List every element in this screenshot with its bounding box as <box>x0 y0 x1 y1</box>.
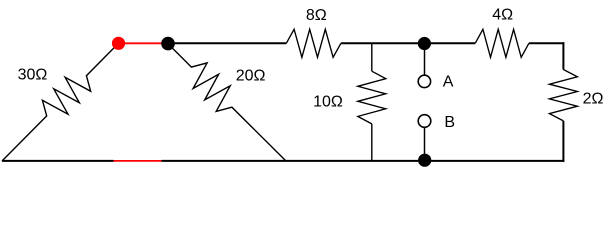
wire bottom left <box>2 160 114 162</box>
wire stub to terminal A <box>424 44 426 76</box>
wire right vertical lower <box>562 121 564 162</box>
terminal B circle <box>418 115 431 128</box>
node junction (top, 20ohm branch) <box>161 37 175 51</box>
wire bottom red segment <box>114 160 162 162</box>
wire right vertical upper <box>562 42 564 69</box>
resistor R1 30ohm (left diagonal branch) <box>2 43 119 161</box>
svg-text:A: A <box>443 74 454 91</box>
wire top horizontal <box>168 42 286 44</box>
svg-text:B: B <box>444 114 455 131</box>
node junction (bottom, terminal branch) <box>418 154 431 167</box>
node red (top left junction) <box>112 37 125 50</box>
resistor R2 20ohm (diagonal branch) <box>168 44 286 161</box>
wire bottom right <box>162 160 565 162</box>
wire 10ohm branch upper stub <box>371 43 373 71</box>
svg-text:8Ω: 8Ω <box>306 7 327 24</box>
wire 10ohm branch lower stub <box>371 124 373 161</box>
node junction (top, terminal branch) <box>418 37 431 50</box>
wire stub from terminal B <box>424 127 426 160</box>
svg-text:10Ω: 10Ω <box>313 93 343 110</box>
wire top middle <box>341 42 475 44</box>
wire top red segment <box>119 42 169 44</box>
resistor R6 10ohm <box>358 71 386 124</box>
svg-text:4Ω: 4Ω <box>492 7 513 24</box>
svg-text:20Ω: 20Ω <box>236 68 266 85</box>
wire top right <box>529 42 565 44</box>
resistor R4 4ohm <box>475 29 529 57</box>
terminal A circle <box>418 75 430 87</box>
resistor R5 2ohm <box>549 70 577 121</box>
svg-text:30Ω: 30Ω <box>18 67 48 84</box>
svg-text:2Ω: 2Ω <box>583 91 604 108</box>
resistor R3 8ohm <box>286 29 341 57</box>
